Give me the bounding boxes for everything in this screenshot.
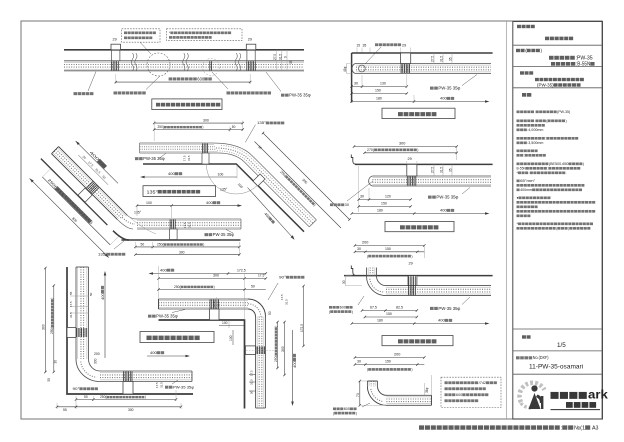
svg-text:35: 35 bbox=[289, 60, 293, 64]
view G: rail horizontal band bbox=[100, 371, 192, 382]
svg-text:600: 600 bbox=[197, 76, 205, 81]
svg-text:30: 30 bbox=[357, 360, 361, 364]
view H: dashed ext line at bracket level bbox=[246, 350, 277, 352]
logo: company suffix 株式会社 bbox=[566, 402, 573, 408]
view E: dim line 67.5/82.5 bbox=[362, 310, 417, 312]
svg-text:43φ: 43φ bbox=[343, 67, 347, 72]
svg-text:27.5: 27.5 bbox=[273, 54, 277, 60]
svg-text:17.5: 17.5 bbox=[258, 274, 264, 278]
view C2: diagonal rail and wall group bbox=[24, 129, 154, 259]
view H: right dim column 300 bbox=[284, 322, 286, 375]
view C2: bottom dim 300 bbox=[135, 254, 239, 256]
svg-text:172.5: 172.5 bbox=[237, 269, 246, 273]
svg-text:50: 50 bbox=[232, 125, 236, 129]
view E: 30 dim wall to rail bbox=[345, 276, 347, 286]
view E: dim line 150 bbox=[365, 316, 417, 318]
view H: right dim 400以内 with down arrow bbox=[292, 330, 294, 405]
view D: dim line 180 and 400以内 bbox=[352, 213, 488, 215]
svg-text:400mm: 400mm bbox=[520, 188, 532, 192]
field: scale label 縮尺 bbox=[522, 335, 526, 338]
view E: caption box 端部平面詳細図 bbox=[382, 336, 453, 346]
view H: rail bottom end cut bbox=[256, 407, 266, 409]
svg-text:55: 55 bbox=[69, 291, 73, 295]
svg-text:150: 150 bbox=[385, 247, 391, 251]
view B: wall line vertical bbox=[351, 53, 353, 103]
view B: mid dim stack 27.5/31.5/35 bbox=[433, 53, 435, 64]
view A: leader from note box1 to joint circle bbox=[140, 42, 151, 54]
view C2: bracket on diagonal rail bbox=[78, 188, 92, 202]
view B: label 手摺 PW-35 35φ with leader bbox=[462, 75, 477, 86]
view A: wall mount line bbox=[64, 49, 304, 51]
view C1: rail bend inner edge bbox=[218, 153, 309, 227]
view C1: overhead dim 300 bbox=[154, 122, 243, 124]
svg-text:65"mm": 65"mm" bbox=[520, 179, 536, 183]
view C1: dim 400以内 along diagonal with arrow bbox=[248, 188, 294, 239]
view F: rail vertical segment bbox=[367, 381, 377, 386]
svg-text:135°: 135° bbox=[257, 121, 266, 125]
svg-text:150: 150 bbox=[385, 360, 391, 364]
view E: rail vertical stub through wall bbox=[367, 268, 377, 277]
svg-text:600: 600 bbox=[456, 393, 462, 397]
view C1: dim 100 near corner bbox=[236, 165, 238, 179]
svg-text:31.5: 31.5 bbox=[188, 222, 192, 228]
svg-text:): ) bbox=[583, 162, 584, 166]
view F: top dim 200 bbox=[355, 357, 424, 359]
view E: rail horizontal band bbox=[386, 286, 491, 296]
svg-text:30: 30 bbox=[345, 203, 349, 207]
view D: dim line 150 bbox=[359, 206, 411, 208]
view A: label 取付レールジョイント部 with leader bbox=[212, 72, 228, 89]
view B: bracket bbox=[401, 53, 411, 64]
svg-text:17.5: 17.5 bbox=[183, 155, 187, 161]
svg-text::3,500mm: :3,500mm bbox=[527, 141, 543, 145]
view H: top dim 400以内/172.5 with left arrow bbox=[150, 273, 266, 275]
view E: bracket bbox=[408, 276, 417, 286]
svg-text:17.5: 17.5 bbox=[155, 382, 159, 388]
view G: bottom dim line 50/250 bbox=[76, 399, 176, 401]
svg-text:90°: 90° bbox=[73, 387, 80, 391]
svg-text:70: 70 bbox=[356, 393, 360, 397]
svg-text:No.(DXF): No.(DXF) bbox=[533, 355, 549, 360]
bottom note text bbox=[419, 425, 424, 429]
view H: right dim column 250 bbox=[277, 322, 279, 368]
view B: end cap circle bbox=[358, 65, 365, 72]
view E: rail bend up-to-wall arcs bbox=[367, 276, 387, 296]
view G: bracket on vertical rail bbox=[67, 328, 76, 338]
svg-text:300: 300 bbox=[128, 408, 134, 412]
view G: rail top end cut bbox=[76, 266, 89, 268]
view C2: diagonal wall line bbox=[41, 159, 107, 225]
svg-text:250(: 250( bbox=[50, 327, 54, 334]
view H: right dim column 172.5 bbox=[303, 286, 305, 346]
view E: wall hook symbol bbox=[351, 266, 357, 276]
view G: bracket on horizontal rail bbox=[123, 382, 133, 395]
view H: right small dims 50/17.5/31.5 bbox=[268, 311, 272, 315]
view G: rail bend arcs bbox=[76, 359, 100, 382]
view A: dashed note box 1 本工事用ジョイント bbox=[122, 29, 160, 42]
view A: bracket 1 rail hatch bbox=[112, 61, 119, 70]
svg-text:29: 29 bbox=[408, 157, 412, 161]
view A: dashed circle around rail joint bbox=[203, 59, 220, 76]
view C1: dim 400以内 horizontal with left arrow bbox=[142, 176, 237, 178]
view A: dashed note box 2 壁木と取付レールの注意 bbox=[167, 29, 243, 41]
svg-text:250(: 250( bbox=[158, 125, 165, 129]
svg-text:(BE500-650: (BE500-650 bbox=[549, 162, 569, 166]
view C2: label 手摺 PW-35 35φ with leader bbox=[226, 230, 233, 234]
svg-text:): ) bbox=[202, 125, 203, 129]
svg-text:100: 100 bbox=[146, 201, 152, 205]
view G: small dims near vertical rail bbox=[69, 291, 73, 295]
svg-text:30: 30 bbox=[354, 82, 358, 86]
svg-text:17.5: 17.5 bbox=[250, 370, 254, 376]
svg-text:30: 30 bbox=[360, 195, 364, 199]
view C1: diagonal dim line 250 bbox=[255, 142, 342, 229]
svg-text:17.5: 17.5 bbox=[280, 294, 284, 300]
svg-text:.: . bbox=[566, 171, 567, 175]
view C2: wall corner arc bbox=[113, 231, 129, 240]
view D: wall top line bbox=[355, 163, 493, 165]
field: drawing name label 図面名 bbox=[520, 71, 524, 74]
view B: caption box 端部平面詳細図 bbox=[382, 108, 455, 118]
view C1: rotated dim 50 near start bbox=[257, 145, 263, 151]
svg-text:31.5: 31.5 bbox=[69, 312, 73, 318]
view C1: bracket on horizontal rail bbox=[202, 153, 209, 164]
svg-text:180: 180 bbox=[376, 97, 382, 101]
view D: wall hook symbol bbox=[351, 155, 357, 165]
view C2: diagonal dim line 250 below wall bbox=[42, 177, 110, 245]
svg-text:PW-35 35φ: PW-35 35φ bbox=[438, 86, 460, 91]
view E: top dim 30/150 bbox=[355, 251, 424, 253]
view A: label 取付レール with leader bbox=[88, 72, 96, 92]
svg-text:29: 29 bbox=[402, 44, 406, 48]
svg-text:): ) bbox=[568, 227, 569, 231]
view H: left small dims 17.5/31.5/50 near vertical rail bottom bbox=[250, 370, 254, 376]
view G: label 手摺 PW-35 35φ with leader bbox=[172, 380, 178, 384]
svg-text:29: 29 bbox=[248, 38, 252, 42]
svg-text::: : bbox=[524, 154, 525, 158]
view D: bracket bbox=[407, 164, 417, 176]
view H: bracket on horizontal rail bbox=[210, 309, 220, 320]
svg-text::4,000mm: :4,000mm bbox=[527, 128, 543, 132]
view C2: diagonal rail band edges bbox=[59, 147, 128, 216]
view H: dim 250 and 50 bbox=[159, 289, 266, 291]
svg-text:400: 400 bbox=[150, 350, 157, 355]
svg-text:): ) bbox=[411, 368, 412, 372]
view B: rail PW-35 with round end bbox=[356, 64, 491, 74]
field: product name 天然木手摺:PW-35 bbox=[549, 56, 554, 60]
view E: top dim 200 bbox=[355, 245, 424, 247]
svg-text:400: 400 bbox=[292, 361, 297, 368]
view C2: dim 100 and 400以内 bbox=[137, 205, 241, 207]
view C1: rail diagonal hatch bbox=[216, 148, 313, 223]
view A: bracket 2 rail hatch bbox=[247, 61, 256, 70]
svg-text:270(: 270( bbox=[367, 148, 375, 152]
view C1: rail diagonal end cut bbox=[309, 220, 316, 227]
svg-text:PW-35 35φ: PW-35 35φ bbox=[213, 232, 235, 237]
view H: wall line under rail and corner L bbox=[159, 320, 245, 409]
svg-text:135°: 135° bbox=[220, 188, 228, 192]
view C2: bracket on horizontal rail bbox=[170, 229, 178, 240]
spec notes text block bbox=[517, 110, 520, 113]
view A: caption box 直線ジョイント部平面詳細図 bbox=[152, 99, 222, 110]
svg-text:): ) bbox=[417, 148, 418, 152]
svg-text:135°: 135° bbox=[134, 211, 142, 215]
view H: dims 100 near corner bbox=[228, 321, 230, 328]
view E: label 水平部600以上 with leader bbox=[358, 296, 364, 305]
svg-text:): ) bbox=[145, 395, 146, 399]
view G: rail vertical band bbox=[76, 267, 89, 359]
view A: break mark 3 bbox=[235, 53, 241, 71]
svg-text:PW-35 35φ: PW-35 35φ bbox=[436, 195, 458, 200]
view H: small dims 17.5/31.5 at bracket bbox=[216, 297, 218, 308]
svg-text:30: 30 bbox=[54, 360, 58, 364]
svg-text:): ) bbox=[356, 411, 357, 415]
view C2: small dims 17.5/31.5 right of bend bbox=[183, 222, 187, 228]
view C2: rail horizontal end cut bbox=[240, 219, 242, 229]
view A: break mark 2 bbox=[183, 53, 189, 71]
logo underline bbox=[551, 409, 601, 411]
view A: label 手摺 PW-35 35φ with leader bbox=[266, 72, 281, 92]
svg-text:400: 400 bbox=[206, 200, 213, 205]
view F: dim 35 at end bbox=[431, 375, 433, 395]
svg-text:/742: /742 bbox=[479, 381, 486, 385]
svg-text:300: 300 bbox=[213, 274, 219, 278]
view F: rail end cut bbox=[431, 395, 433, 405]
view A: rail joint mark bbox=[210, 61, 212, 70]
view H: rail bend arcs bbox=[248, 299, 266, 317]
svg-text:(PW-35): (PW-35) bbox=[537, 83, 554, 88]
svg-text:): ) bbox=[411, 254, 412, 258]
title block outer column line bbox=[506, 21, 508, 419]
svg-text:67.5: 67.5 bbox=[370, 306, 377, 310]
view H: rail horizontal band bbox=[159, 299, 249, 309]
view D: dim line 30/120 bbox=[359, 199, 411, 201]
svg-text:31.5: 31.5 bbox=[160, 382, 164, 388]
view C1: rail bend outer edge bbox=[213, 143, 316, 220]
view C2: dim 400以内 along rail upper side bbox=[76, 141, 118, 183]
svg-text:150: 150 bbox=[381, 202, 387, 206]
svg-text:135°: 135° bbox=[147, 189, 158, 195]
view G: bottom dim line 300/55 bbox=[57, 406, 181, 408]
view F: dashed note box bbox=[441, 377, 501, 407]
svg-text:200: 200 bbox=[394, 353, 400, 357]
view C1: diagonal dim line 300 bbox=[263, 133, 350, 220]
svg-text:50: 50 bbox=[89, 292, 93, 296]
view C2: bottom dim 50/250 bbox=[135, 246, 239, 248]
svg-text:600: 600 bbox=[344, 407, 350, 411]
field: spec label 仕様 bbox=[522, 93, 526, 97]
view D: mid dim stack 27.5/31.5 bbox=[433, 164, 435, 176]
svg-text:29: 29 bbox=[113, 38, 117, 42]
view D: label 手摺 PW-35 35φ with leader bbox=[462, 188, 470, 195]
logo: figure mark bbox=[529, 385, 544, 409]
field: file no label bbox=[516, 356, 520, 359]
view E: wall top line bbox=[344, 275, 493, 277]
svg-text:15: 15 bbox=[357, 44, 361, 48]
view C1: route label 135°出隅ルート with leader bbox=[245, 125, 255, 143]
field: product number label 品番(製品名) bbox=[516, 49, 520, 52]
view B: left dim 43φ bbox=[346, 64, 348, 74]
svg-text:PW-35 35φ: PW-35 35φ bbox=[289, 93, 311, 98]
svg-text:150: 150 bbox=[386, 312, 392, 316]
view C1: rail horizontal segment bbox=[140, 143, 218, 153]
svg-text:300: 300 bbox=[94, 358, 98, 364]
svg-text:31.5: 31.5 bbox=[187, 155, 191, 161]
svg-text:): ) bbox=[274, 326, 278, 327]
svg-text:17.5: 17.5 bbox=[183, 222, 187, 228]
svg-text::B-55N: :B-55N bbox=[576, 62, 591, 68]
view G: dim 30 and 55 lower left bbox=[54, 360, 58, 364]
svg-text:400: 400 bbox=[160, 268, 167, 273]
svg-text:120: 120 bbox=[385, 195, 391, 199]
svg-text:30: 30 bbox=[342, 280, 346, 284]
svg-text:250(: 250( bbox=[157, 243, 165, 247]
view G: wall lines L shape bbox=[67, 267, 193, 394]
svg-text:400: 400 bbox=[440, 96, 447, 101]
field: product category value パームメイト bbox=[545, 37, 549, 41]
svg-text:ark: ark bbox=[588, 388, 608, 402]
svg-text:29: 29 bbox=[409, 262, 413, 266]
svg-text:400: 400 bbox=[168, 171, 175, 176]
logo: gear mark bbox=[515, 378, 545, 408]
view F: label 水平部600以上 with leader bbox=[362, 403, 370, 407]
view A: rail PW-35 straight bbox=[64, 61, 304, 71]
svg-text:31.5: 31.5 bbox=[439, 56, 443, 62]
field: bracket type ブラケット:B-55N型 bbox=[551, 62, 555, 66]
view D: top dim 270 ブラケット取付可能範囲分 bbox=[365, 152, 457, 154]
view C2: route label 135°入隅ルート with leader bbox=[114, 241, 124, 249]
svg-text:600: 600 bbox=[340, 306, 346, 310]
svg-text:135°: 135° bbox=[98, 253, 107, 257]
svg-text:30: 30 bbox=[357, 247, 361, 251]
svg-text::: : bbox=[535, 119, 536, 123]
view G: small dims 17.5/31.5 at rail right bbox=[155, 382, 159, 388]
svg-text:(PW-35): (PW-35) bbox=[557, 110, 570, 114]
view G: left dim column 250 bbox=[53, 286, 55, 372]
view E: dim line 180 and 400以内 bbox=[352, 323, 488, 325]
svg-text:№(1: №(1 bbox=[574, 425, 585, 432]
svg-text::: : bbox=[547, 167, 548, 171]
svg-text:300: 300 bbox=[179, 250, 185, 254]
svg-text:250(: 250( bbox=[274, 355, 278, 362]
svg-text:200: 200 bbox=[94, 352, 100, 356]
view C1: label 手摺 PW-35 35φ with leader bbox=[159, 153, 166, 158]
svg-text:): ) bbox=[352, 310, 353, 314]
logo: company name アトラスark bbox=[551, 392, 559, 399]
view A: break mark 1 bbox=[131, 53, 137, 71]
view F: dim 30/150 bbox=[355, 364, 424, 366]
view A: dashed circle around wall-side joint bbox=[147, 53, 170, 76]
view D: caption box 端部平面詳細図 bbox=[385, 222, 454, 232]
view F: rail horizontal segment bbox=[386, 395, 431, 405]
svg-text:): ) bbox=[566, 119, 567, 123]
view C1: wall line with 135 bend bbox=[143, 164, 304, 232]
svg-text:250(: 250( bbox=[174, 285, 182, 289]
view D: label 壁面ヨリ30 bbox=[347, 181, 373, 201]
svg-text:180: 180 bbox=[377, 319, 383, 323]
svg-text:31.5: 31.5 bbox=[216, 301, 220, 307]
svg-text:17.5: 17.5 bbox=[212, 301, 216, 307]
svg-text:50: 50 bbox=[84, 395, 88, 399]
view G: small dim ticks crossing rail bbox=[70, 295, 89, 297]
svg-text:180: 180 bbox=[377, 209, 383, 213]
view C1: caption box 135°出入隅部平面詳細図 bbox=[143, 186, 216, 197]
view C2: diagonal dim line 300 bbox=[30, 178, 109, 257]
svg-text:PW-35 35φ: PW-35 35φ bbox=[438, 306, 460, 311]
svg-text::: : bbox=[545, 137, 546, 141]
view H: rail vertical band bbox=[256, 317, 266, 409]
svg-text:130: 130 bbox=[380, 82, 386, 86]
svg-text:100: 100 bbox=[222, 321, 228, 325]
view H: label 手摺 PW-35 35φ with leader bbox=[172, 310, 185, 313]
svg-text:31.5: 31.5 bbox=[285, 299, 289, 305]
view F: rail top end cut bbox=[367, 380, 377, 382]
view C1: overhead dim 250 ブラケット取付可能範囲分 and 50 bbox=[154, 129, 243, 131]
view A: bracket 1 with 29 dim bbox=[111, 44, 121, 50]
svg-text:50: 50 bbox=[251, 285, 255, 289]
title block row dividers bbox=[513, 44, 603, 46]
svg-text:400: 400 bbox=[438, 318, 445, 323]
svg-text:27.5: 27.5 bbox=[430, 56, 434, 62]
view C2: rail bend arcs bbox=[127, 215, 137, 219]
svg-text:172.5: 172.5 bbox=[300, 324, 304, 332]
svg-text:90°: 90° bbox=[279, 276, 286, 280]
svg-text:300: 300 bbox=[42, 324, 46, 330]
svg-text:27.5: 27.5 bbox=[430, 167, 434, 173]
svg-text:17.5: 17.5 bbox=[69, 301, 73, 307]
view G: caption box 出入隅部平面詳細図 bbox=[140, 332, 214, 343]
svg-text:100: 100 bbox=[229, 335, 233, 341]
view G: dim 300 below 200 bbox=[94, 358, 98, 364]
svg-text:400: 400 bbox=[100, 293, 105, 300]
view C1: bracket on diagonal rail bbox=[253, 174, 265, 186]
view A: dim line bracket-to-bracket 600以内 bbox=[116, 81, 250, 83]
svg-text:300: 300 bbox=[281, 346, 285, 352]
view E: label 手摺 PW-35 35φ with leader bbox=[462, 297, 470, 305]
svg-text:A3: A3 bbox=[592, 426, 599, 432]
view G: dim 200 and 400以内 at bend bbox=[147, 355, 188, 357]
view D: rail PW-35 with round end cap bbox=[372, 176, 491, 186]
svg-text:100: 100 bbox=[218, 173, 224, 177]
view C2: horizontal wall line bbox=[121, 239, 240, 241]
view B: dim line 180 and 400以内 with arrow bbox=[352, 101, 488, 103]
view D: dim ext lines at wall face and cap bbox=[358, 166, 360, 212]
view H: bracket on vertical rail bbox=[245, 346, 255, 355]
view B: wall top line bbox=[352, 52, 493, 54]
svg-text:35: 35 bbox=[448, 57, 452, 61]
svg-text:55: 55 bbox=[47, 378, 51, 382]
view H: top dim 300/17.5 bbox=[159, 278, 266, 280]
view A: right end dim stack 27.5/31.5/9/35 bbox=[276, 50, 278, 71]
svg-text:250(: 250( bbox=[100, 395, 107, 399]
view F: dim 70 bbox=[359, 381, 361, 405]
view C1: rotated dim 100 along diagonal bbox=[237, 182, 244, 189]
view C2: small dim rows above rail 30/17.5/31.5/50 bbox=[78, 155, 108, 185]
view C2: angle arc and 135 label bbox=[122, 210, 156, 234]
view B: label エンドキャップ with leader bbox=[375, 43, 378, 46]
svg-text:): ) bbox=[214, 285, 215, 289]
svg-text:31.5: 31.5 bbox=[439, 167, 443, 173]
field: product category label 商品区分 bbox=[517, 25, 521, 28]
svg-text:400: 400 bbox=[440, 208, 447, 213]
svg-text:B-55N: B-55N bbox=[517, 167, 527, 171]
view C2: diagonal rail end cut bbox=[52, 147, 59, 154]
view A: bracket 2 with 29 dim bbox=[246, 44, 256, 50]
view G: rail right end cut bbox=[191, 371, 193, 382]
svg-text:1/5: 1/5 bbox=[557, 342, 566, 349]
view H: route label 90°出隅ルート with leader bbox=[268, 283, 278, 300]
svg-text:PW-35 35φ: PW-35 35φ bbox=[173, 385, 194, 390]
